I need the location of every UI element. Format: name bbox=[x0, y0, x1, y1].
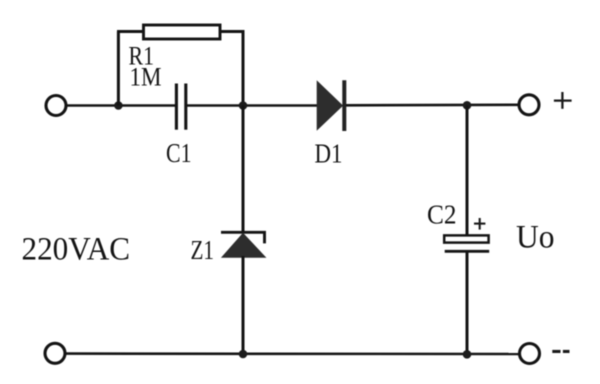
wire top rail middle: C1 to D1 bbox=[186, 104, 319, 107]
svg-text:C2: C2 bbox=[427, 200, 457, 230]
minus sign output polarity (double dash) bbox=[552, 350, 569, 353]
wire R1 loop top-left horizontal bbox=[117, 30, 145, 33]
node E junction dot bottom right bbox=[463, 350, 472, 359]
terminal bottom-right output minus bbox=[520, 344, 540, 364]
terminal bottom-left input bbox=[45, 343, 65, 363]
node B junction dot middle top bbox=[239, 101, 248, 110]
wire top rail left: terminal to C1 bbox=[67, 104, 177, 107]
svg-text:1M: 1M bbox=[130, 63, 162, 92]
terminal top-left input bbox=[46, 96, 66, 116]
capacitor C1 right plate bbox=[184, 84, 187, 130]
wire node C down to C2 bbox=[466, 105, 469, 236]
zener Z1 cathode bar with right hook bbox=[221, 232, 265, 243]
wire R1 loop top-right horizontal bbox=[220, 30, 245, 33]
svg-text:220VAC: 220VAC bbox=[22, 232, 131, 268]
diode D1 cathode bar bbox=[342, 80, 346, 131]
wire zener Z1 down to bottom rail bbox=[242, 256, 245, 354]
plus sign output polarity bbox=[554, 92, 572, 109]
svg-text:C1: C1 bbox=[166, 138, 192, 168]
diode D1 triangle bbox=[317, 81, 342, 129]
svg-text:Z1: Z1 bbox=[191, 235, 215, 265]
node C junction dot top right bbox=[463, 101, 472, 110]
wire R1 loop left vertical bbox=[117, 32, 120, 106]
capacitor C1 left plate bbox=[175, 84, 178, 130]
node A junction dot left bbox=[114, 101, 123, 110]
svg-text:D1: D1 bbox=[315, 139, 343, 169]
wire bottom rail bbox=[66, 352, 520, 355]
capacitor C2 top plate (boxed, polarized) bbox=[444, 235, 488, 242]
plus sign C2 polarity bbox=[474, 218, 485, 230]
zener Z1 triangle bbox=[222, 234, 265, 258]
svg-text:Uo: Uo bbox=[516, 220, 555, 256]
node D junction dot bottom middle bbox=[239, 350, 248, 359]
terminal top-right output plus bbox=[519, 95, 539, 115]
wire C2 down to bottom rail bbox=[466, 251, 469, 354]
wire node B down to zener Z1 bbox=[242, 106, 245, 234]
capacitor C2 bottom plate bbox=[445, 250, 490, 253]
resistor R1 body bbox=[144, 25, 221, 39]
wire top rail right: D1 to output terminal bbox=[346, 104, 519, 107]
wire R1 loop right vertical bbox=[242, 30, 245, 106]
